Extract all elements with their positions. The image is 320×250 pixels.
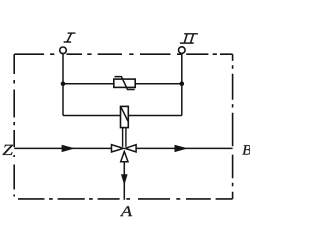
nozzle right triangle — [125, 145, 136, 152]
enclosure boundary right (dash-dot) — [232, 54, 234, 199]
stem double line left — [122, 128, 124, 147]
check valve triangle — [121, 152, 128, 162]
label Z — [3, 145, 14, 155]
throttle valve body — [121, 106, 129, 127]
flow arrow left — [62, 145, 75, 152]
label II (port II) — [184, 33, 198, 35]
wire: port A drop line — [123, 162, 125, 200]
stem double line right — [125, 128, 127, 147]
port II circle — [179, 47, 186, 54]
junction node I — [61, 81, 66, 86]
label A — [120, 206, 132, 216]
wire: lower cross line left — [63, 115, 121, 117]
nozzle left triangle — [112, 145, 124, 152]
wire: lower cross line right — [128, 115, 182, 117]
junction node II — [180, 81, 185, 86]
wire: port II drop line — [181, 53, 183, 115]
throttle valve diagonal — [121, 107, 128, 122]
relief element box — [114, 79, 135, 87]
label I (port I) — [68, 32, 76, 34]
wire: main line Z side — [14, 147, 111, 149]
relief element diagonal with tails — [115, 77, 135, 90]
wire: main line B side — [136, 147, 233, 149]
wire: pilot line right (relief box to node II) — [135, 83, 182, 85]
wire: port I drop line — [62, 54, 64, 116]
enclosure boundary top (dash-dot) — [14, 53, 232, 55]
enclosure boundary bottom (dash-dot) — [18, 198, 233, 200]
flow arrow right — [175, 145, 188, 152]
port I circle — [60, 47, 67, 54]
enclosure boundary left (dash-dot) — [13, 54, 15, 196]
flow arrow down to A — [121, 174, 128, 185]
wire: pilot line left (node I to relief box) — [63, 83, 114, 85]
label B — [242, 145, 251, 154]
